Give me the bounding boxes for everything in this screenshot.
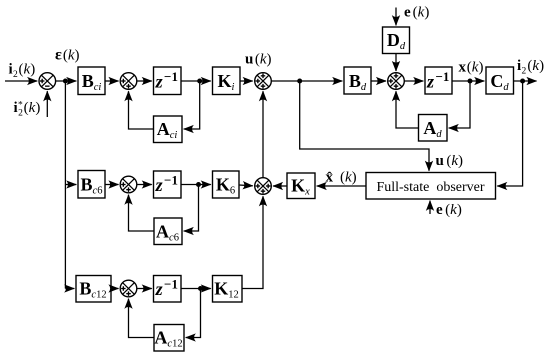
wire A_c12 into S7 bottom — [129, 299, 155, 338]
gain block B_ci — [78, 67, 105, 95]
wire B_ci to S2 — [105, 80, 119, 82]
wire S2 to z^-1 block — [137, 80, 152, 82]
node N2 after z^-1 row1 — [197, 79, 202, 84]
node N6 after z^-1 row2 — [196, 182, 201, 187]
svg-text:e(k): e(k) — [436, 202, 462, 218]
wire trunk N1 down to rows 2 and 3 — [64, 81, 66, 289]
svg-text:Dd: Dd — [387, 30, 406, 52]
wire z^-1 to K_6 — [181, 184, 211, 186]
svg-text:z−1: z−1 — [426, 69, 449, 92]
wire feedback N6 down into A_c6 — [184, 185, 199, 232]
svg-text:Ac6: Ac6 — [156, 222, 179, 244]
gain block B_d — [344, 67, 371, 94]
svg-text:K6: K6 — [216, 175, 235, 197]
svg-text:Kx: Kx — [291, 176, 310, 198]
svg-text:Bc6: Bc6 — [81, 175, 103, 197]
wire branch into B_c6 — [65, 184, 76, 186]
summing junction S3 u(k) — [255, 73, 272, 90]
wire S1 to B_ci — [56, 80, 77, 82]
wire A_ci into S2 bottom — [129, 91, 154, 129]
wire A_d into S4 bottom — [396, 91, 419, 128]
svg-text:ε(k): ε(k) — [55, 47, 80, 64]
wire K_x to S5 — [273, 185, 287, 187]
svg-text:i2(k): i2(k) — [9, 62, 36, 81]
gain block K_i — [213, 67, 241, 95]
wire feedback N2 down into A_ci — [184, 81, 200, 129]
svg-text:K12: K12 — [214, 279, 239, 301]
wire branch into B_c12 — [65, 288, 74, 290]
wire S3 to B_d — [271, 80, 342, 82]
wire D_d down into S4 top — [395, 54, 397, 72]
summing junction S6 — [120, 176, 137, 193]
gain block B_c12 — [76, 276, 111, 303]
node N7 after z^-1 row3 — [198, 286, 203, 291]
delay block z^-1 row3 — [154, 276, 182, 303]
wire C_d to output i2(k) — [514, 80, 537, 82]
svg-text:Full-state observer: Full-state observer — [376, 180, 484, 195]
node N1 branch junction after S1 — [63, 79, 68, 84]
svg-text:Aci: Aci — [157, 119, 178, 141]
wire S7 to z^-1 row3 — [137, 288, 152, 290]
wire e(k) up into observer bottom — [429, 201, 431, 214]
summing junction S1 — [39, 73, 56, 90]
svg-text:Ki: Ki — [218, 71, 235, 93]
gain block C_d — [486, 67, 514, 94]
wire u(k) tap N3 down into observer top — [300, 81, 429, 171]
delay block z^-1 row1 — [154, 67, 182, 95]
wire reference i2*(k) up into S1 bottom — [46, 91, 48, 117]
wire K_i to S3 — [240, 80, 253, 82]
wire S4 to z^-1 row1 right — [404, 80, 423, 82]
wire e(k) into D_d — [395, 8, 397, 26]
state block A_c12 — [154, 325, 184, 352]
node N5 after C_d — [520, 79, 525, 84]
wire z^-1 to K_i — [181, 80, 211, 82]
wire B_c12 to S7 — [111, 288, 119, 290]
state block A_ci — [154, 116, 183, 143]
gain block K_6 — [213, 171, 240, 198]
svg-text:u(k): u(k) — [436, 153, 464, 169]
svg-text:Cd: Cd — [490, 71, 509, 93]
gain block K_x — [287, 173, 315, 199]
svg-text:u(k): u(k) — [245, 52, 272, 68]
wire z^-1 to C_d with node x(k) — [452, 80, 484, 82]
svg-text:e(k): e(k) — [404, 5, 429, 21]
wire S6 to z^-1 row2 — [137, 184, 152, 186]
svg-text:x̂(k): x̂(k) — [326, 170, 357, 186]
summing junction S2 — [120, 73, 137, 90]
wire z^-1 to K_12 — [181, 288, 211, 290]
wire B_c6 to S6 — [105, 184, 119, 186]
gain block B_c6 — [78, 171, 105, 199]
svg-text:z−1: z−1 — [155, 276, 178, 299]
gain block K_12 — [213, 276, 243, 303]
wire K_6 to S5 left — [239, 184, 253, 187]
wire feedback N4 down into A_d — [449, 81, 470, 128]
summing junction S5 — [255, 178, 272, 195]
wire input i2(k) into summer S1 — [5, 80, 37, 82]
disturbance block D_d — [383, 27, 410, 54]
svg-text:z−1: z−1 — [155, 172, 178, 195]
svg-text:x(k): x(k) — [459, 60, 484, 76]
wire K_12 up into S5 bottom — [242, 196, 263, 288]
state block A_c6 — [154, 218, 182, 245]
summing junction S4 — [388, 73, 405, 90]
node N3 after S3 — [297, 79, 302, 84]
delay block z^-1 row2 — [154, 171, 182, 198]
svg-text:Bci: Bci — [82, 71, 102, 93]
wire S5 up into S3 bottom — [262, 91, 264, 178]
summing junction S7 — [120, 280, 137, 297]
svg-text:Bd: Bd — [349, 71, 367, 93]
wire A_c6 into S6 bottom — [129, 195, 155, 231]
svg-text:i*2(k): i*2(k) — [14, 100, 41, 119]
wire output tap N5 down into observer right — [497, 81, 522, 186]
state block A_d — [419, 115, 448, 142]
wire feedback N7 down into A_c12 — [186, 289, 201, 338]
svg-text:Ac12: Ac12 — [154, 328, 182, 350]
full-state observer block — [366, 173, 496, 200]
svg-text:z−1: z−1 — [155, 69, 178, 92]
svg-text:Ad: Ad — [423, 118, 442, 140]
svg-text:Bc12: Bc12 — [79, 279, 106, 301]
wire B_d to S4 — [371, 80, 386, 82]
delay block z^-1 plant — [425, 67, 452, 94]
node N4 x(k) — [468, 79, 473, 84]
svg-text:i2(k): i2(k) — [517, 58, 544, 77]
wire observer to K_x — [317, 185, 366, 187]
